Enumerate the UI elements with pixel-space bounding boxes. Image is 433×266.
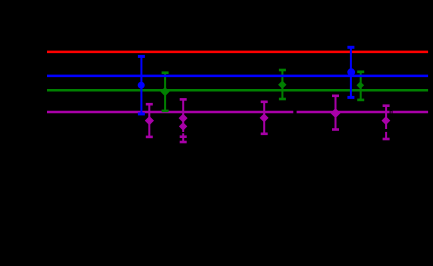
green series line <box>47 89 428 92</box>
green errorbar G3 <box>357 72 365 100</box>
magenta series line segment 2 <box>297 111 390 114</box>
magenta errorbar M5 <box>382 106 391 139</box>
blue errorbar B1 <box>138 56 145 114</box>
red series line <box>47 51 428 54</box>
magenta series line segment 1 <box>47 111 293 114</box>
magenta series line segment 3 <box>393 111 429 114</box>
magenta errorbar M4 <box>331 96 341 130</box>
blue errorbar B2 <box>347 47 355 97</box>
blue series line <box>47 75 428 78</box>
magenta errorbar M3 <box>260 102 269 134</box>
magenta errorbar M1 <box>145 104 154 137</box>
magenta errorbar M2 (double) <box>179 99 188 142</box>
magenta series line speck in gap <box>391 111 392 113</box>
green errorbar G1 <box>160 73 169 111</box>
green errorbar G2 <box>278 70 286 99</box>
